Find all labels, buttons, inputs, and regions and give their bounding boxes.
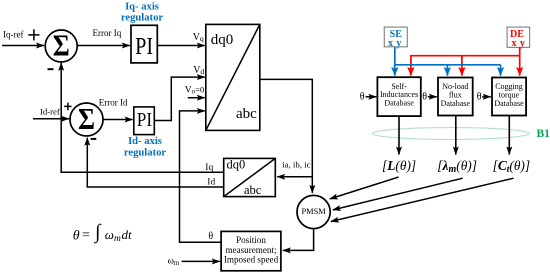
svg-text:=: = xyxy=(82,228,90,243)
svg-text:B1: B1 xyxy=(537,128,550,140)
svg-text:dq0: dq0 xyxy=(211,32,234,48)
svg-text:PMSM: PMSM xyxy=(301,207,326,216)
plus sign at summing junction S2 xyxy=(64,103,71,111)
svg-text:Id: Id xyxy=(207,178,215,188)
svg-text:Error Iq: Error Iq xyxy=(93,28,122,38)
block U1 dq0-to-abc transform xyxy=(206,24,260,130)
wire lambda m to PMSM xyxy=(333,178,463,210)
label Id-axis regulator xyxy=(124,136,166,158)
wire ia ib ic into U2 xyxy=(277,176,312,178)
wire Id-ref input xyxy=(33,118,69,120)
svg-text:y: y xyxy=(396,38,401,49)
svg-text:Vq: Vq xyxy=(193,32,204,43)
svg-text:Vd: Vd xyxy=(193,65,204,76)
wire S2 to PI2 xyxy=(103,119,132,121)
wire SE bus vertical to DB1 xyxy=(394,47,396,76)
svg-text:Iq- axis: Iq- axis xyxy=(125,2,159,13)
wire Id feedback to S2 xyxy=(87,138,223,187)
block DB2 no-load flux database xyxy=(438,78,473,116)
summing junction S1 xyxy=(45,28,77,63)
wire Ct to PMSM xyxy=(331,178,514,221)
wire DB1 output xyxy=(398,116,400,155)
svg-text:Imposed speed: Imposed speed xyxy=(224,255,279,265)
svg-text:Id- axis: Id- axis xyxy=(128,136,162,147)
wire DB3 output xyxy=(508,116,510,155)
svg-text:Database: Database xyxy=(384,99,414,108)
svg-text:dq0: dq0 xyxy=(227,158,246,172)
svg-text:PI: PI xyxy=(135,34,153,60)
svg-text:Vo=0: Vo=0 xyxy=(185,85,204,96)
svg-text:ωm: ωm xyxy=(168,257,180,268)
svg-text:abc: abc xyxy=(244,183,262,197)
block DB1 self-inductances database xyxy=(377,77,420,116)
wire DB2 output xyxy=(455,116,457,155)
block DE encoder xyxy=(507,27,529,49)
svg-text:x: x xyxy=(512,38,517,49)
svg-text:Id-ref: Id-ref xyxy=(40,106,60,116)
wire theta arrow into DB2 xyxy=(428,96,437,98)
svg-text:abc: abc xyxy=(236,106,257,122)
wire theta from position block to U1 xyxy=(180,111,222,242)
minus sign at summing junction S1 xyxy=(48,68,54,70)
svg-text:PI: PI xyxy=(137,109,152,131)
svg-text:θ: θ xyxy=(477,91,482,102)
wire S1 to PI1 xyxy=(77,45,130,47)
wire PMSM to position measurement block xyxy=(283,229,314,251)
block PI1 (Iq-axis regulator) xyxy=(131,25,157,63)
wire Iq-ref input xyxy=(2,45,44,47)
wire Iq feedback to S1 xyxy=(61,63,224,173)
motor PMSM xyxy=(297,195,330,228)
svg-text:[λm(θ)]: [λm(θ)] xyxy=(437,158,477,175)
svg-text:ia, ib, ic: ia, ib, ic xyxy=(282,160,310,170)
wire PI2 to U1 Vd input xyxy=(154,77,205,120)
wire L(theta) to PMSM xyxy=(330,177,399,199)
highlight ellipse B1 xyxy=(372,128,529,140)
wire DE branch to DB1 xyxy=(410,55,412,76)
svg-text:θ: θ xyxy=(422,91,427,102)
svg-text:Iq: Iq xyxy=(205,163,213,173)
svg-text:Error Id: Error Id xyxy=(99,97,128,107)
svg-text:Σ: Σ xyxy=(78,101,95,136)
block DB3 cogging torque database xyxy=(492,78,526,116)
svg-text:regulator: regulator xyxy=(121,13,163,24)
label Iq-axis regulator xyxy=(121,2,163,24)
plus sign at summing junction S1 xyxy=(28,29,39,40)
svg-text:Database: Database xyxy=(441,99,471,108)
svg-text:x: x xyxy=(388,38,393,49)
wire DE bus vertical to DB3 xyxy=(519,47,521,75)
wire SE branch to DB2 xyxy=(446,65,448,76)
equation theta equals integral of omega m dt xyxy=(73,221,132,244)
wire DE branch to DB2 xyxy=(461,55,463,76)
svg-text:θ: θ xyxy=(73,228,80,243)
wire Vo input xyxy=(188,97,205,99)
svg-text:Σ: Σ xyxy=(53,28,70,63)
wire theta arrow into DB1 xyxy=(366,96,377,98)
svg-text:Database: Database xyxy=(494,99,524,108)
summing junction S2 xyxy=(70,101,103,136)
svg-text:measurement;: measurement; xyxy=(225,245,276,255)
wire PI1 to U1 xyxy=(157,45,205,47)
block U2 abc-to-dq0 transform xyxy=(224,158,276,198)
wire omega m into position block xyxy=(182,260,220,262)
svg-text:θ: θ xyxy=(360,91,365,102)
svg-text:y: y xyxy=(520,38,525,49)
wire SE bus horizontal xyxy=(395,64,501,66)
wire SE branch to DB3 xyxy=(500,65,502,76)
svg-text:Iq-ref: Iq-ref xyxy=(3,29,23,39)
svg-text:Position: Position xyxy=(236,235,266,245)
wire theta arrow into DB3 xyxy=(482,96,491,98)
svg-text:[L(θ)]: [L(θ)] xyxy=(382,158,416,173)
minus sign at summing junction S2 xyxy=(91,138,97,140)
block SE encoder xyxy=(384,27,407,49)
block position measurement xyxy=(221,231,281,270)
wire DE bus horizontal xyxy=(411,55,521,57)
wire U1 output to PMSM xyxy=(260,79,313,192)
svg-text:regulator: regulator xyxy=(124,148,166,159)
svg-text:θ: θ xyxy=(208,231,213,242)
block PI2 (Id-axis regulator) xyxy=(134,107,155,135)
svg-text:[Ct(θ)]: [Ct(θ)] xyxy=(493,158,531,175)
